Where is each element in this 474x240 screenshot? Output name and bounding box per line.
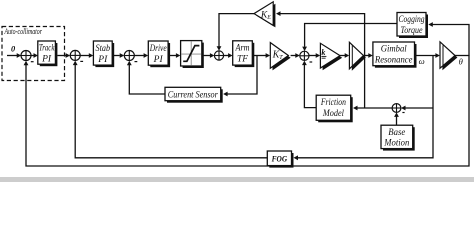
wire omega tap to sum6 right input bbox=[401, 106, 433, 111]
wire sum5 to gain k triangle bbox=[309, 53, 320, 58]
svg-text:TF: TF bbox=[237, 54, 249, 64]
auto-collimator dashed box bbox=[2, 27, 65, 81]
gray bottom strip bbox=[0, 177, 474, 182]
svg-text:Friction: Friction bbox=[320, 97, 346, 107]
svg-text:Drive: Drive bbox=[149, 43, 167, 53]
amplifier KT triangle bbox=[270, 43, 290, 71]
wire Arm TF to amplifier KT (junction at x=257 for current sensor tap) bbox=[252, 53, 270, 58]
svg-text:FOG: FOG bbox=[271, 154, 287, 163]
wire Base Motion to sum6 bottom bbox=[394, 112, 399, 125]
block Current Sensor bbox=[165, 87, 223, 102]
block Arm TF bbox=[233, 41, 255, 67]
wire FOG output to sum2 bottom bbox=[73, 61, 267, 158]
wire k triangle to integrator 1 bbox=[340, 53, 349, 58]
summing junction S4 bbox=[214, 51, 223, 60]
wire KE output to sum4 top bbox=[217, 14, 254, 51]
svg-text:Stab: Stab bbox=[96, 43, 111, 53]
svg-text:Model: Model bbox=[322, 108, 344, 118]
wire current sensor tap (junction at 257,55.5) down to Current Sensor input bbox=[223, 56, 257, 97]
wire integrator2 to right feedback node bbox=[455, 55, 470, 57]
wire sum3 to Drive PI bbox=[134, 53, 148, 58]
block Base Motion bbox=[381, 125, 415, 150]
wire sum2 to Stab PI bbox=[80, 53, 93, 58]
svg-text:Arm: Arm bbox=[235, 43, 250, 53]
wire sum1 to Track PI bbox=[31, 53, 38, 58]
node 0 (reference input label) bbox=[11, 45, 16, 54]
svg-text:Base: Base bbox=[388, 127, 405, 137]
wire omega junction down to FOG input bbox=[294, 56, 434, 161]
svg-text:PI: PI bbox=[153, 54, 164, 64]
block Track PI bbox=[38, 41, 58, 66]
wire input to sum1 bbox=[7, 53, 21, 58]
summing junction S3 bbox=[124, 51, 137, 62]
wire Friction Model output to sum5 bottom bbox=[302, 61, 316, 108]
gain k triangle (1/J) bbox=[320, 43, 342, 70]
svg-text:Resonance: Resonance bbox=[374, 54, 413, 64]
wire KE input from relative-rate node (vertical x=364.6) bbox=[276, 11, 365, 107]
summing junction S6 bbox=[392, 104, 405, 113]
block FOG bbox=[267, 151, 293, 168]
wire sum6 output to Friction Model (junction with KE vertical at x=364.6) bbox=[353, 106, 392, 111]
wire Stab PI to sum3 bbox=[112, 53, 124, 58]
wire Gimbal Resonance to integrator 2 (junction at x=433) bbox=[415, 53, 440, 58]
wire KT to sum5 bbox=[291, 53, 300, 58]
svg-text:Cogging: Cogging bbox=[399, 14, 425, 24]
wire outer loop theta feedback to sum1 bottom bbox=[24, 56, 469, 167]
svg-text:Track: Track bbox=[39, 43, 55, 53]
wire Cogging Torque to sum5 top bbox=[302, 24, 397, 52]
block Stab PI bbox=[93, 41, 114, 67]
summing junction S1 bbox=[21, 51, 34, 62]
integrator triangle 1 (hollow) bbox=[349, 42, 365, 71]
svg-text:ω: ω bbox=[419, 56, 425, 66]
summing junction S5 bbox=[300, 51, 312, 62]
wire theta up to Cogging Torque input bbox=[428, 22, 469, 55]
svg-text:Auto-collimator: Auto-collimator bbox=[4, 27, 43, 36]
block Gimbal Resonance bbox=[373, 42, 417, 68]
node omega label bbox=[419, 56, 425, 66]
wire saturation to sum4 bbox=[202, 53, 215, 58]
wire integrator1 to Gimbal Resonance (crosses vertical feedback line, no junction) bbox=[363, 53, 372, 58]
svg-text:Current Sensor: Current Sensor bbox=[168, 90, 218, 100]
node theta label bbox=[459, 56, 464, 66]
integrator triangle 2 (hollow, output theta) bbox=[440, 42, 457, 70]
block saturation nonlinearity bbox=[181, 41, 204, 68]
back-EMF amplifier KE (points left) bbox=[254, 2, 275, 28]
svg-text:Motion: Motion bbox=[383, 138, 409, 148]
wire Current Sensor output to sum3 bottom bbox=[127, 61, 165, 94]
wire Drive PI to saturation bbox=[168, 53, 180, 58]
block Drive PI bbox=[148, 41, 170, 67]
svg-text:PI: PI bbox=[97, 54, 108, 64]
wire sum4 to Arm TF bbox=[224, 53, 233, 58]
summing junction S2 bbox=[70, 50, 83, 61]
block Cogging Torque bbox=[397, 13, 428, 39]
svg-text:Gimbal: Gimbal bbox=[381, 44, 407, 54]
svg-text:PI: PI bbox=[41, 53, 52, 63]
svg-text:k: k bbox=[321, 48, 325, 57]
svg-text:Torque: Torque bbox=[401, 25, 423, 35]
block Friction Model bbox=[316, 95, 353, 122]
wire Track PI to sum2 bbox=[57, 53, 70, 58]
